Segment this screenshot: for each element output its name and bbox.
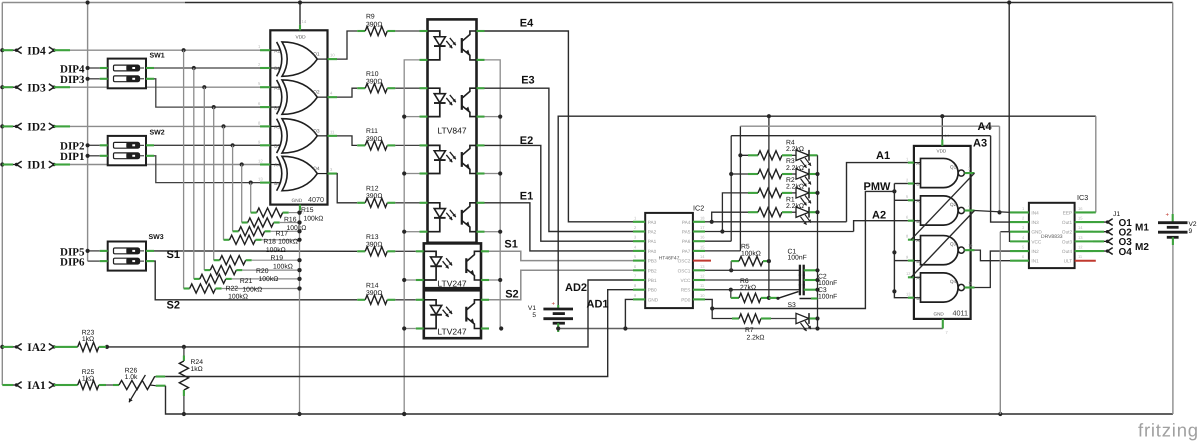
resistor R6 (731, 290, 771, 303)
wire net PMW (705, 184, 908, 311)
svg-text:A3: A3 (973, 138, 987, 150)
label R9 (366, 14, 382, 29)
optocoupler LTV847 channel 1 (420, 31, 485, 60)
label C2 (818, 274, 837, 287)
svg-text:ID3: ID3 (27, 82, 46, 94)
svg-text:13: 13 (906, 292, 911, 297)
connector ID3 (2, 82, 70, 94)
wire top power rail (2, 2, 1172, 4)
svg-text:14: 14 (700, 254, 705, 259)
wire top rail to DRV (1000, 0, 1011, 241)
label IC2 (693, 204, 704, 213)
IC 4070 input pins (258, 44, 280, 187)
resistor R15 (251, 208, 302, 217)
svg-text:R19: R19 (271, 255, 284, 262)
svg-text:R24: R24 (191, 359, 204, 366)
svg-text:VDD: VDD (296, 34, 307, 40)
label R11 (366, 128, 382, 143)
svg-text:2.2kΩ: 2.2kΩ (747, 334, 765, 341)
svg-text:R14: R14 (366, 282, 379, 289)
label S1 right (504, 238, 517, 250)
wire VCC to C2 (705, 279, 800, 281)
svg-text:R21: R21 (240, 278, 253, 285)
optocoupler LTV847 channel 4 (420, 203, 485, 232)
svg-text:17: 17 (700, 225, 705, 230)
svg-text:100kΩ: 100kΩ (228, 294, 248, 301)
svg-text:100kΩ: 100kΩ (741, 251, 761, 258)
svg-text:10: 10 (700, 293, 705, 298)
label R2 (786, 177, 804, 191)
svg-text:PA5: PA5 (682, 230, 691, 235)
svg-text:390Ω: 390Ω (366, 193, 382, 200)
svg-text:IN4: IN4 (1031, 210, 1039, 215)
optocoupler LTV847 channel 2 (420, 88, 485, 116)
svg-text:100kΩ: 100kΩ (259, 276, 279, 283)
wire pulldown drop R17 (232, 145, 234, 231)
resistor R4 (748, 151, 796, 160)
IC3 pins (1010, 206, 1096, 264)
label DIP1 (60, 151, 84, 163)
svg-text:DRV8833: DRV8833 (1041, 234, 1063, 240)
svg-text:12: 12 (258, 159, 263, 164)
IC LTV247 lower body (424, 290, 481, 338)
wire pot to bottom (166, 386, 1173, 416)
connector J1 O3 (1093, 237, 1132, 248)
svg-text:S2: S2 (167, 300, 180, 312)
label A3 (973, 138, 987, 150)
label AD1 (587, 298, 609, 310)
resistor R9 (357, 26, 395, 35)
label R15 (301, 207, 323, 222)
wire R11 out (395, 144, 419, 146)
label R16 (284, 217, 306, 232)
resistor R14 (357, 295, 395, 304)
resistor R1 (748, 208, 796, 217)
wire bus to SW2 pins (86, 143, 100, 158)
svg-text:Out1: Out1 (1062, 220, 1073, 225)
wire net A4 (740, 126, 1001, 214)
svg-text:PD0: PD0 (681, 297, 691, 302)
svg-text:VDD: VDD (937, 149, 947, 154)
svg-text:GND: GND (648, 297, 659, 302)
svg-text:18: 18 (700, 215, 705, 220)
wire V1 positive rail (558, 114, 1096, 309)
IC 4011 NAND gates (921, 158, 975, 302)
svg-text:PA7: PA7 (682, 249, 691, 254)
label R1 (786, 196, 804, 210)
wire SW1 to B1 (154, 66, 260, 70)
connector ID2 (2, 122, 70, 134)
connector ID4 (2, 45, 70, 57)
svg-text:1kΩ: 1kΩ (82, 336, 94, 343)
label S2 left (167, 300, 180, 312)
wire bus to SW3 pins (86, 249, 100, 261)
svg-text:E2: E2 (520, 135, 533, 147)
wire SW2 to B4 (154, 156, 260, 185)
label C1 (788, 248, 807, 261)
svg-text:R22: R22 (226, 285, 239, 292)
resistor R7 (712, 309, 796, 324)
svg-text:VCC: VCC (1031, 239, 1042, 244)
wire emitter bus (485, 60, 504, 331)
svg-text:15: 15 (1078, 216, 1083, 221)
svg-text:16: 16 (700, 235, 705, 240)
svg-text:OSC2: OSC2 (678, 259, 691, 264)
wire SW feed bus (86, 0, 90, 261)
svg-text:E1: E1 (520, 190, 533, 202)
label R14 (366, 282, 382, 297)
wire bus to SW1 pins (86, 66, 100, 81)
svg-text:R12: R12 (366, 185, 379, 192)
label R6 (740, 278, 756, 292)
wire PA6 to R3 (705, 174, 748, 241)
svg-text:ULT: ULT (1064, 259, 1073, 264)
wire net A3 (731, 136, 1010, 222)
wire R13 out (395, 250, 416, 252)
wire net S2 out (489, 270, 633, 300)
svg-text:IA1: IA1 (27, 380, 46, 392)
svg-text:Q2: Q2 (950, 202, 957, 207)
resistor R3 (748, 169, 796, 178)
wire A4 gray vertical (998, 211, 1000, 213)
LED D4 (796, 150, 818, 168)
label A1 (876, 150, 890, 162)
svg-text:10: 10 (330, 53, 335, 58)
svg-text:LTV847: LTV847 (437, 126, 466, 136)
label PMW (864, 181, 892, 193)
svg-text:O4: O4 (1119, 247, 1133, 258)
svg-text:PB2: PB2 (648, 268, 657, 273)
wire pulldown drop R21 (193, 68, 195, 279)
label R26 (125, 367, 138, 381)
svg-text:10: 10 (968, 243, 973, 248)
wire R14 out (395, 299, 416, 301)
IC2 HT46F47 body (645, 213, 693, 308)
svg-text:Q1: Q1 (313, 52, 320, 58)
label fritzing watermark (1138, 420, 1199, 441)
svg-text:ID2: ID2 (27, 122, 46, 134)
wire net AD2 (105, 280, 633, 349)
wire Q2 to IN4 (975, 211, 1011, 213)
label LTV847 (437, 126, 466, 136)
svg-text:GND: GND (292, 198, 303, 204)
svg-text:R7: R7 (745, 327, 754, 334)
svg-text:ID4: ID4 (27, 45, 46, 57)
IC 4011 VDD pin (937, 116, 950, 153)
svg-text:A4: A4 (978, 121, 993, 133)
battery V1 (528, 302, 573, 333)
wire Q3 to IN1 (975, 250, 1011, 261)
svg-text:2.2kΩ: 2.2kΩ (786, 146, 804, 153)
label R12 (366, 185, 382, 200)
svg-text:A2: A2 (872, 210, 886, 222)
svg-text:2.2kΩ: 2.2kΩ (786, 165, 804, 172)
svg-text:13: 13 (700, 264, 705, 269)
connector J1 O2 (1093, 228, 1132, 239)
label DIP2 (60, 141, 85, 153)
svg-text:14: 14 (302, 19, 307, 24)
wire left input bus (0, 3, 4, 386)
wire R5 R6 to VDD rail (768, 116, 770, 298)
label R23 (82, 330, 95, 344)
wire PA4 to R1 (710, 212, 748, 224)
switch SW1 (100, 53, 165, 89)
svg-text:390Ω: 390Ω (366, 136, 382, 143)
svg-text:SW3: SW3 (149, 234, 164, 241)
wire net E3 (485, 88, 634, 231)
wire net S1 out (489, 251, 633, 260)
label R25 (82, 369, 95, 383)
label R7 (745, 327, 764, 341)
wire V2 negative (1172, 237, 1174, 414)
svg-text:HT46F47: HT46F47 (659, 256, 680, 262)
wire pulldown drop R15 (250, 183, 252, 213)
wire Q to R9 (337, 31, 357, 59)
wire V2 positive (1166, 3, 1173, 223)
svg-text:OSC1: OSC1 (678, 268, 691, 273)
svg-text:PA3: PA3 (648, 220, 657, 225)
label R18 (263, 239, 285, 254)
svg-text:Out4: Out4 (1062, 249, 1073, 254)
svg-text:16: 16 (1078, 206, 1083, 211)
label DIP3 (60, 74, 85, 86)
svg-text:12: 12 (1078, 245, 1083, 250)
label DIP6 (60, 257, 85, 269)
wire Q4 to IN2 (975, 251, 1011, 287)
connector J1 O1 (1093, 218, 1132, 229)
connector IA1 (2, 380, 70, 392)
wire Q2 to A4 diagonal (911, 211, 975, 278)
svg-text:M1: M1 (1135, 223, 1149, 234)
svg-text:4070: 4070 (308, 195, 324, 204)
battery V2 (1158, 221, 1197, 237)
label S3 (788, 302, 797, 309)
svg-text:fritzing: fritzing (1138, 420, 1199, 441)
IC 4011 input pins (906, 156, 922, 301)
label M1 (1135, 223, 1149, 234)
label R22 (226, 285, 248, 300)
resistor R17 (233, 227, 302, 236)
label E3 (521, 74, 534, 86)
wire ID2 to A3 (70, 124, 260, 128)
svg-text:390Ω: 390Ω (366, 21, 382, 28)
wire net E2 (485, 145, 634, 241)
label DIP4 (60, 63, 85, 75)
resistor R23 (70, 342, 106, 351)
label LTV247 upper (437, 279, 466, 289)
wire SW2 to B3 (154, 143, 260, 147)
potentiometer R26 (106, 375, 166, 402)
svg-text:100kΩ: 100kΩ (287, 225, 307, 232)
svg-text:11: 11 (330, 129, 335, 134)
label 4070 (308, 195, 324, 204)
resistor R19 (214, 256, 302, 265)
wire ID1 to A4 (70, 162, 260, 166)
svg-text:E4: E4 (520, 17, 534, 29)
wire Q to R12 (337, 174, 357, 203)
label 4011 (953, 309, 968, 318)
svg-text:9: 9 (1189, 228, 1193, 235)
label R24 (191, 359, 204, 373)
svg-text:100nF: 100nF (788, 255, 807, 262)
svg-text:AD2: AD2 (565, 282, 587, 294)
label LTV247 lower (437, 327, 466, 337)
svg-text:IN1: IN1 (1031, 259, 1039, 264)
svg-text:S2: S2 (505, 289, 518, 301)
wire OSC1 to C1 (705, 268, 800, 272)
svg-text:IA2: IA2 (27, 342, 46, 354)
label S2 right (505, 289, 518, 301)
svg-text:R16: R16 (284, 217, 297, 224)
svg-text:IN2: IN2 (1031, 249, 1039, 254)
svg-text:VCC: VCC (680, 278, 691, 283)
label R21 (240, 278, 262, 293)
resistor R25 (70, 380, 106, 389)
wire A3 vertical top (729, 136, 733, 176)
IC 4070 XOR gates (277, 42, 337, 191)
svg-text:R10: R10 (366, 71, 379, 78)
label M2 (1135, 242, 1149, 253)
optocoupler LTV247 lower channel (416, 300, 489, 329)
svg-text:2.2kΩ: 2.2kΩ (786, 184, 804, 191)
svg-text:2.2kΩ: 2.2kΩ (786, 203, 804, 210)
LED D2 (796, 188, 818, 206)
label AD2 (565, 282, 587, 294)
svg-text:PA0: PA0 (648, 249, 657, 254)
IC LTV847 body (428, 19, 477, 242)
svg-text:R9: R9 (366, 14, 375, 21)
svg-text:1.0k: 1.0k (125, 374, 138, 381)
svg-text:DIP1: DIP1 (60, 151, 84, 163)
label A4 (978, 121, 993, 133)
wire PA5 to R2 (720, 193, 748, 234)
label J1 (1113, 211, 1120, 218)
wire PA7 to R4 (705, 155, 748, 251)
svg-text:AD1: AD1 (587, 298, 609, 310)
svg-text:390Ω: 390Ω (366, 242, 382, 249)
svg-text:12: 12 (906, 271, 911, 276)
svg-text:R11: R11 (366, 128, 378, 135)
label R4 (786, 140, 804, 154)
svg-text:+: + (1166, 213, 1170, 219)
svg-text:PA4: PA4 (682, 220, 691, 225)
svg-text:12: 12 (700, 274, 705, 279)
svg-text:RES: RES (681, 288, 691, 293)
svg-text:LTV247: LTV247 (437, 327, 466, 337)
svg-text:DIP6: DIP6 (60, 257, 85, 269)
svg-text:Q2: Q2 (313, 90, 320, 96)
svg-text:Q3: Q3 (313, 128, 320, 134)
wire GND rail (556, 326, 943, 330)
wire R9 out (395, 30, 419, 32)
resistor R20 (204, 266, 301, 275)
svg-text:PB1: PB1 (648, 278, 657, 283)
label C3 (818, 287, 837, 300)
svg-text:SW1: SW1 (150, 53, 165, 60)
svg-text:ID1: ID1 (27, 160, 46, 172)
IC LTV247 upper body (424, 243, 481, 288)
svg-text:15: 15 (700, 244, 705, 249)
wire pulldown drop R20 (203, 87, 205, 270)
wire Q1 to A3 diagonal (911, 173, 975, 240)
svg-text:100kΩ: 100kΩ (242, 286, 262, 293)
svg-text:Out3: Out3 (1062, 239, 1073, 244)
switch SW3 (100, 234, 164, 271)
wire net E4 (485, 31, 634, 222)
wire net A1 (705, 163, 908, 222)
resistor R11 (357, 141, 395, 150)
svg-text:V2: V2 (1189, 221, 1197, 228)
wire Q to R11 (337, 136, 357, 146)
wire R10 out (395, 87, 419, 89)
svg-text:390Ω: 390Ω (366, 79, 382, 86)
wire pulldown drop R19 (213, 107, 215, 260)
svg-text:EEP: EEP (1063, 210, 1072, 215)
label R3 (786, 158, 804, 172)
wire ID3 to A2 (70, 85, 260, 89)
resistor R2 (748, 188, 796, 197)
svg-text:100kΩ: 100kΩ (273, 263, 293, 270)
svg-text:4011: 4011 (953, 309, 968, 318)
svg-text:100kΩ: 100kΩ (304, 215, 324, 222)
wire RES to C3 (705, 288, 800, 292)
label IC3 (1077, 193, 1088, 202)
IC 4011 body (914, 146, 971, 319)
resistor R18 (224, 235, 302, 244)
svg-text:DIP3: DIP3 (60, 74, 85, 86)
svg-text:5: 5 (532, 312, 536, 319)
svg-text:PA2: PA2 (648, 230, 657, 235)
svg-text:E3: E3 (521, 74, 534, 86)
label E4 (520, 17, 534, 29)
svg-text:Q3: Q3 (950, 242, 957, 247)
resistor R24 (179, 347, 188, 416)
svg-text:M2: M2 (1135, 242, 1149, 253)
capacitors C1 C2 C3 (800, 265, 820, 296)
resistor R22 (184, 284, 302, 293)
wire pulldown drop R22 (183, 50, 185, 288)
svg-text:Q4: Q4 (313, 166, 320, 172)
resistor R21 (194, 274, 302, 283)
wire net S1 (154, 250, 357, 252)
connector J1 O4 (1093, 247, 1132, 258)
wire A4 vertical top (738, 126, 742, 157)
svg-text:13: 13 (258, 177, 263, 182)
label S1 left (167, 249, 180, 261)
connector IA2 (2, 342, 70, 354)
wire R12 out (395, 202, 419, 204)
svg-text:PB0: PB0 (648, 288, 657, 293)
wire LED bus (815, 155, 819, 328)
svg-text:IC3: IC3 (1077, 193, 1088, 202)
svg-text:14: 14 (1078, 225, 1083, 230)
svg-text:S1: S1 (504, 238, 517, 250)
LED D3 (796, 169, 818, 187)
svg-text:+: + (552, 302, 556, 308)
wire net A2 (705, 221, 908, 232)
wire IC2 GND (625, 299, 633, 328)
label E1 (520, 190, 533, 202)
svg-text:1kΩ: 1kΩ (191, 366, 203, 373)
svg-text:S3: S3 (788, 302, 797, 309)
svg-text:PA1: PA1 (648, 239, 657, 244)
IC 4011 GND pin (934, 312, 949, 336)
wire Q to R10 (337, 88, 357, 97)
wire net S2 (154, 261, 357, 300)
svg-text:LTV247: LTV247 (437, 279, 466, 289)
svg-text:390Ω: 390Ω (366, 290, 382, 297)
label R20 (256, 268, 278, 283)
